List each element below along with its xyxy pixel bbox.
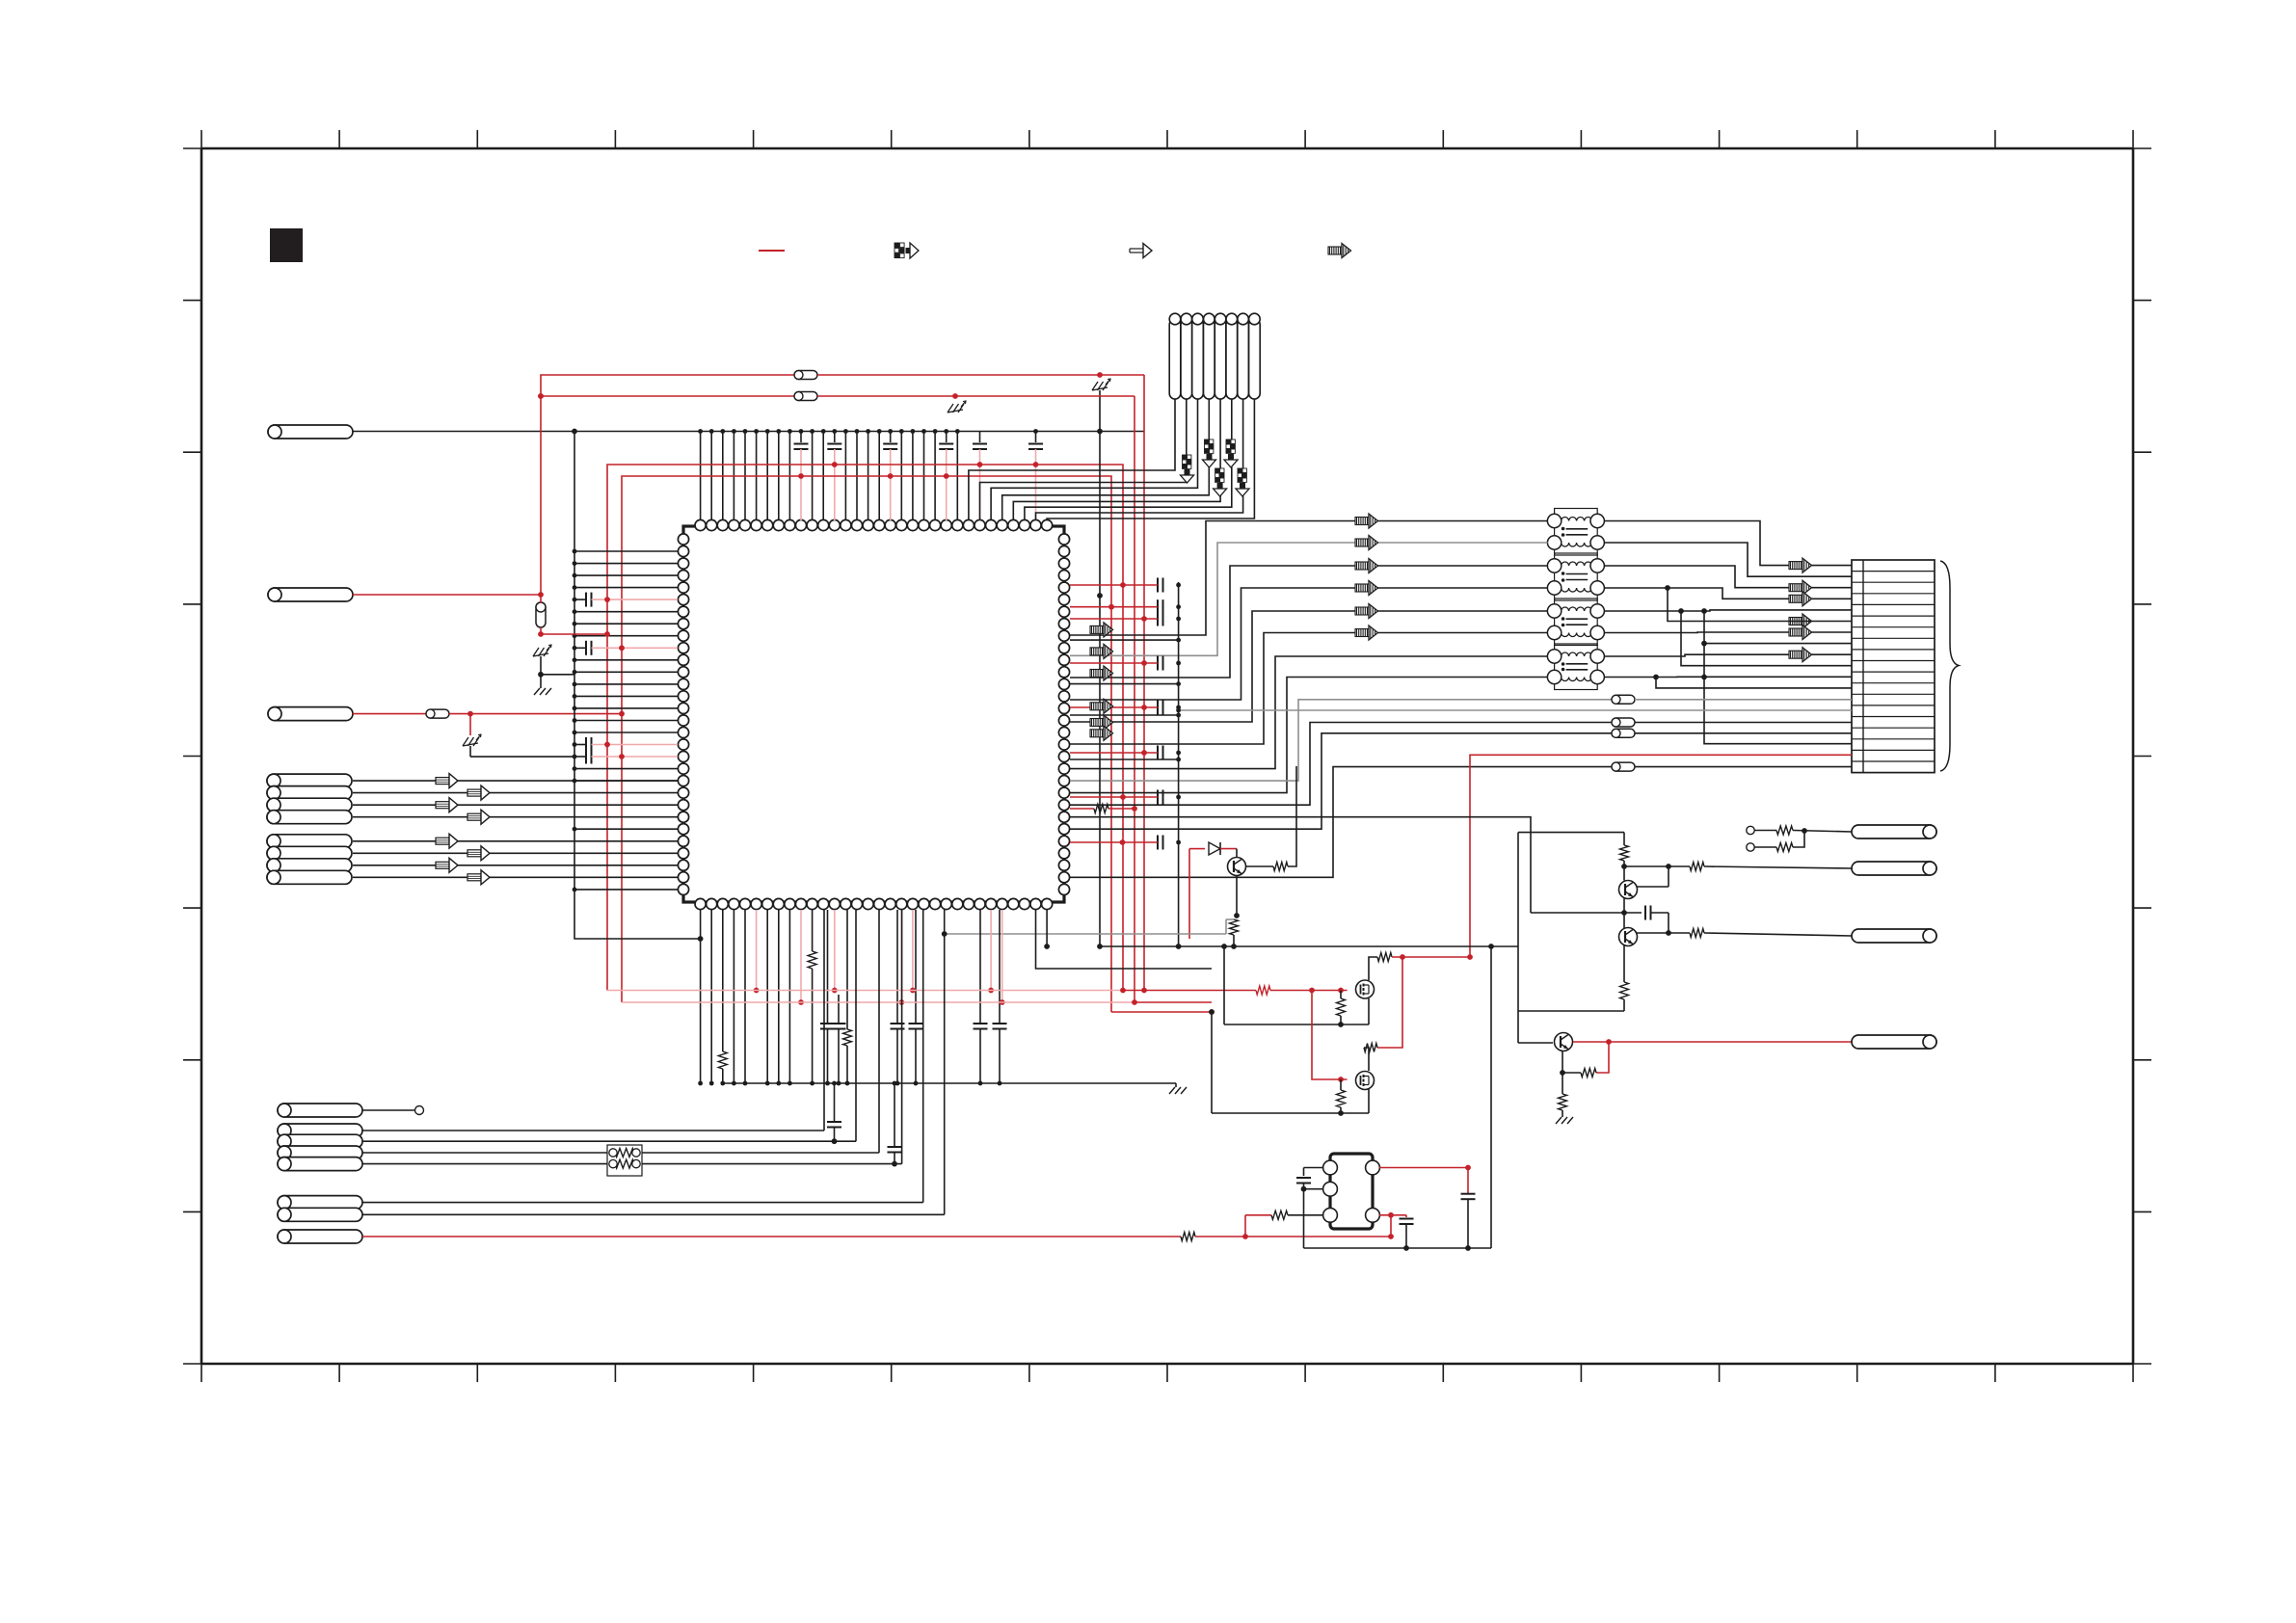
wire bead L4 leads xyxy=(540,595,542,603)
wire U2 out1 red xyxy=(1379,1167,1468,1169)
resistor R14 xyxy=(1623,833,1625,845)
resistor R3 xyxy=(1230,919,1239,935)
bead L1 xyxy=(426,709,449,718)
wire red row 839 xyxy=(1070,808,1094,810)
wire vert 1768 xyxy=(1704,611,1852,744)
resistor R7 xyxy=(1181,1233,1195,1241)
bead L6 xyxy=(1612,718,1635,727)
terminal TP2 xyxy=(1747,826,1754,834)
wire red bus RB1 xyxy=(607,465,1123,991)
resistor R10 xyxy=(1377,953,1392,962)
resistor R5 xyxy=(846,910,848,1029)
bus arrows transformer xyxy=(1355,518,1369,525)
wire CN9 rows xyxy=(362,1130,824,1131)
U1 pin circles xyxy=(678,519,1069,909)
legend red wire sample xyxy=(759,250,785,252)
transistor Q5 mosfet xyxy=(1356,980,1375,998)
bus arrows CN4 xyxy=(1183,455,1187,459)
legend filled square xyxy=(270,228,303,262)
wire CN2 red xyxy=(353,594,541,596)
wire CN11 red bus xyxy=(362,1236,1181,1237)
wire vert 1257 xyxy=(1211,1012,1213,1113)
wire red RW1 xyxy=(541,375,794,595)
wire red cap rows xyxy=(1070,584,1158,586)
terminal TP1 xyxy=(415,1106,424,1115)
ground chassis G2 xyxy=(948,410,963,412)
wire row5 xyxy=(1668,588,1852,622)
wire red bus A xyxy=(607,990,1123,992)
transformer T1 T2 T3 T4 xyxy=(1555,509,1598,556)
wire red row 658 xyxy=(541,633,607,635)
resistor R17 xyxy=(1620,982,1629,999)
wire R16 out xyxy=(1704,933,1852,936)
capacitor C7-C10 left xyxy=(574,599,586,600)
connector CN5 CN6 xyxy=(267,774,352,787)
wire row13 gray xyxy=(1179,709,1852,711)
resistor R18 xyxy=(1581,1069,1596,1078)
transistor Q2 xyxy=(1619,928,1638,946)
wire Q2 emitter xyxy=(1623,945,1625,982)
wire R13 U2 xyxy=(1288,1214,1323,1216)
wire R20 out xyxy=(1793,831,1852,833)
wire Q4 collector xyxy=(1245,865,1273,867)
wire R21 up xyxy=(1793,831,1804,847)
connector CN9 xyxy=(278,1124,362,1137)
wire bottom pin drops xyxy=(700,910,702,1083)
wire Q6 source xyxy=(1212,1112,1369,1114)
wire R3 bottom xyxy=(1233,935,1235,946)
wire Q5 source xyxy=(1224,1024,1369,1025)
wire R15 xyxy=(1669,865,1690,867)
node RW2 junction xyxy=(538,393,544,399)
wire bead L6 out xyxy=(1635,722,1852,724)
bead L2 xyxy=(794,371,817,380)
wire Q4 emitter xyxy=(1236,875,1238,916)
legend hatched arrow symbol xyxy=(1328,244,1351,258)
wire Q3 emitter xyxy=(1562,1051,1563,1094)
wire Q1 collector xyxy=(1624,865,1669,867)
wire CN3 red to bead xyxy=(353,713,426,715)
wire bead L7 out xyxy=(1635,732,1852,734)
wire gnd rail stub xyxy=(1175,1083,1177,1087)
wire left cap pink rows xyxy=(592,599,679,600)
wire bead L8 row xyxy=(1070,767,1612,878)
bus arrows CN7 xyxy=(1789,562,1802,570)
resistor R12 xyxy=(1340,1079,1342,1090)
wire red row17 xyxy=(1470,755,1852,957)
wire cap rail xyxy=(1178,582,1180,946)
wire Q2 collector xyxy=(1637,932,1669,934)
transistor Q4 xyxy=(1228,858,1246,876)
wire top pin drops xyxy=(700,432,702,521)
wire red diode feed xyxy=(1188,849,1190,939)
transistor Q6 mosfet xyxy=(1356,1072,1375,1090)
node top bus junctions xyxy=(698,429,703,434)
wire Q1 Q2 mid xyxy=(1623,898,1625,928)
resistor R2 xyxy=(1273,863,1288,871)
bead L3 xyxy=(794,392,817,401)
wire red RW2 drop xyxy=(1134,396,1135,1002)
bus arrows CN5 CN6 xyxy=(436,778,449,785)
resistor R15 xyxy=(1690,863,1704,871)
wire U2 pin1 xyxy=(1304,1167,1324,1169)
op-amp U1 main QFP IC body xyxy=(683,526,1064,902)
wire red vert 1455 xyxy=(1377,957,1402,1048)
wire transformer outputs xyxy=(1604,521,1852,566)
wire 982 bus xyxy=(1100,945,1179,947)
wire red RW1 drop xyxy=(1143,375,1145,991)
bead L4 xyxy=(536,602,546,627)
wire Q3 red fb xyxy=(1596,1042,1609,1073)
ground G6 xyxy=(1169,1087,1175,1094)
bus arrows right pins xyxy=(1090,625,1104,633)
wire U2 bottom xyxy=(1304,1247,1492,1249)
wire pin32 drop xyxy=(1046,910,1048,946)
wire bottom staircase verticals xyxy=(823,910,825,1131)
brace CN7 xyxy=(1940,561,1959,771)
wire gate2 red xyxy=(1312,991,1348,1080)
legend bus-arrow symbol xyxy=(894,243,919,258)
connector CN12 xyxy=(1852,825,1936,838)
wire row11 xyxy=(1656,678,1852,688)
wire black vert 1141 xyxy=(1099,432,1101,947)
wire U2 pin2 xyxy=(1304,1188,1324,1190)
capacitor C29 xyxy=(1467,1168,1469,1194)
connector CN4 xyxy=(1169,319,1181,399)
resistor R8 xyxy=(1256,986,1270,995)
resistor R11 xyxy=(1364,1044,1377,1052)
connector CN3 xyxy=(268,707,353,721)
wire R2 to vert xyxy=(1288,766,1296,866)
resistor R1 xyxy=(1094,805,1108,813)
resistor R16 xyxy=(1690,929,1704,938)
transistor Q1 xyxy=(1619,881,1638,899)
wire CN8 xyxy=(362,1109,414,1111)
wire red 993 xyxy=(1392,956,1470,958)
resistor R4 xyxy=(812,910,814,951)
wire red bus C xyxy=(1111,1011,1212,1013)
wire red RW2 xyxy=(541,395,794,397)
wire red stub down xyxy=(469,714,471,735)
capacitor C27 xyxy=(1303,1168,1305,1177)
bead L5 xyxy=(1612,695,1635,704)
connector CN15 xyxy=(1852,1035,1936,1049)
wire G1 to bus xyxy=(1099,390,1101,432)
connector CN1 xyxy=(268,425,353,439)
wire R18 xyxy=(1562,1072,1581,1074)
wire red bus B xyxy=(622,1001,1135,1003)
connector CN14 xyxy=(1852,929,1936,943)
wire red RW2b xyxy=(817,395,1135,397)
wire TP3 xyxy=(1754,846,1776,848)
wire red gate1b xyxy=(1270,990,1348,992)
wire bead L8 out xyxy=(1635,766,1852,768)
wire Q6 drain xyxy=(1364,1048,1369,1071)
wire cap pink drops xyxy=(800,449,802,520)
wire TP2 xyxy=(1754,830,1776,832)
ground chassis G4 xyxy=(533,653,548,656)
resistor R6 xyxy=(722,910,724,1051)
transistor Q3 xyxy=(1555,1033,1573,1051)
resistor R21 xyxy=(1776,843,1793,852)
wire Q1 frame xyxy=(1517,833,1519,1043)
wire G3 to rail row xyxy=(469,746,471,757)
connector CN11 xyxy=(278,1230,362,1243)
capacitor bank C1-C6 xyxy=(800,432,802,443)
wire R19 gnd xyxy=(1562,1110,1563,1117)
wire CN1 to top bus xyxy=(353,431,1144,433)
wire bead L5 row xyxy=(1070,700,1612,781)
wire T4 inputs xyxy=(1070,656,1548,769)
connector CN13 xyxy=(1852,862,1936,875)
wire vert 1270 xyxy=(1179,945,1224,947)
wire bead L6 row xyxy=(1070,723,1612,806)
wire 1005 bus xyxy=(1036,910,1213,969)
capacitor C28 xyxy=(1405,1215,1407,1217)
wire bead L1 red row xyxy=(449,713,622,715)
wire Q5 drain xyxy=(1369,957,1377,980)
wire diode to Q4 xyxy=(1220,848,1237,850)
wire Q3 feed xyxy=(1518,1042,1553,1044)
legend signal arrow symbol xyxy=(1130,244,1152,258)
ground G5 xyxy=(534,688,540,695)
terminal TP3 xyxy=(1747,843,1754,851)
wire transformer inputs xyxy=(1070,521,1548,636)
node red dots left xyxy=(604,631,610,637)
resistor R13 xyxy=(1271,1211,1288,1219)
op-amp U2 xyxy=(1330,1154,1373,1229)
wire Q3 red out xyxy=(1573,1041,1852,1043)
wire left rail xyxy=(574,432,701,940)
wire U2 pin3 res xyxy=(1244,1215,1246,1237)
wire gray 969 xyxy=(945,933,1226,935)
capacitor pairs C19-C24 xyxy=(827,910,829,1024)
connector CN10 xyxy=(278,1196,362,1210)
capacitor bank right C11-C18 xyxy=(1157,578,1159,593)
wire row to Q2 xyxy=(1070,817,1531,913)
wire red RW1b xyxy=(817,374,1144,376)
wire G4 down xyxy=(540,656,542,688)
ground chassis G1 xyxy=(1092,387,1108,390)
resistor R19 xyxy=(1559,1094,1567,1110)
wire bead L5 out xyxy=(1635,699,1852,701)
wire bead L7 row xyxy=(1070,733,1612,829)
ground chassis G3 xyxy=(463,743,478,746)
wire left pin rows xyxy=(574,550,678,552)
resistor R9 xyxy=(1340,991,1342,999)
wire right pin rows xyxy=(1070,639,1179,641)
wire red row 839b xyxy=(1108,808,1135,810)
wire gnd rail xyxy=(721,1082,1176,1084)
diode D1 xyxy=(1209,842,1220,855)
wire CN10 rows xyxy=(362,1202,923,1204)
wire row9 xyxy=(1681,611,1852,666)
wire red gate1 xyxy=(1255,990,1257,992)
capacitor C30 xyxy=(1624,912,1642,914)
ground G7 xyxy=(1556,1117,1562,1124)
wire red bus cont xyxy=(1195,1236,1391,1237)
connector CN2 xyxy=(268,588,353,601)
resistor R20 xyxy=(1776,826,1793,835)
wire CN5 CN6 rows xyxy=(353,780,678,782)
connector CN7 xyxy=(1852,560,1935,773)
bead L7 xyxy=(1612,729,1635,737)
wire red bottom drops xyxy=(756,910,758,991)
wire red bus RB2 xyxy=(622,476,1111,1012)
resistor network RN1 xyxy=(607,1145,642,1176)
connector CN8 xyxy=(278,1104,362,1117)
bead L8 xyxy=(1612,762,1635,771)
wire U2 out3 red xyxy=(1379,1214,1391,1216)
node red junction top xyxy=(538,393,544,399)
capacitor C25 C26 xyxy=(834,1083,836,1122)
wire CN4 staircase xyxy=(969,399,1175,520)
